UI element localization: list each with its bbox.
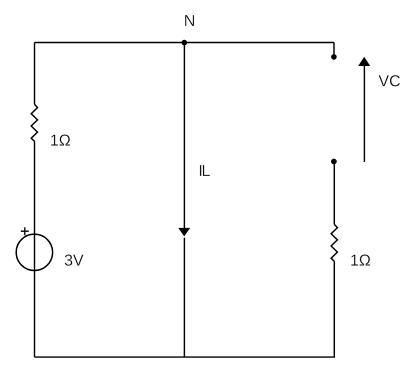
wire: middle vertical branch upper segment (node N to IL arrow) [183, 43, 185, 229]
current label IL [200, 165, 210, 176]
resistor R2 zigzag (1 ohm, right branch) [331, 224, 337, 261]
wire: left vertical between R1 and bottom (passes through source circle) [34, 141, 36, 357]
voltage source V1 circle [16, 234, 52, 270]
wire: middle vertical branch lower segment (below IL arrow tip to bottom wire) [183, 238, 185, 357]
wire: bottom horizontal [35, 356, 336, 358]
terminal dot lower right [331, 159, 337, 165]
node N junction dot [182, 40, 188, 46]
node label N [185, 15, 194, 26]
plus sign of source V1 [21, 227, 29, 235]
terminal dot upper right [331, 54, 337, 60]
voltage arrow VC head [358, 57, 370, 66]
current arrow IL head (pointing down) on middle wire [178, 228, 190, 237]
resistor R1 zigzag (1 ohm, left branch) [31, 104, 37, 141]
wire: left vertical upper segment (top corner to resistor R1) [34, 43, 36, 105]
value label 3V for V1 [65, 254, 84, 265]
value label 1Ω for R1 [51, 134, 70, 145]
voltage label VC [379, 75, 401, 86]
wire: right vertical from lower terminal down to resistor R2 [333, 162, 335, 225]
voltage arrow VC shaft (pointing up) [363, 66, 365, 162]
value label 1Ω for R2 [351, 254, 370, 265]
wire: top horizontal from node A area to right stub corner [35, 42, 335, 44]
wire: right vertical from R2 down to bottom wire [333, 261, 335, 357]
wire: top-right stub down to open terminal [333, 43, 335, 57]
